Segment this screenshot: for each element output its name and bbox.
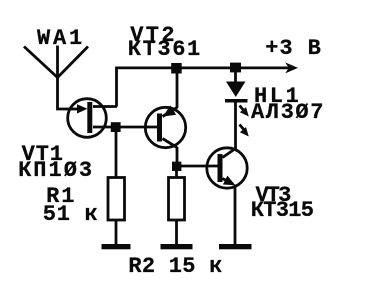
label KP103: [18, 160, 94, 182]
wire J3 to VT2 base: [116, 126, 158, 129]
node J2 (rail / LED): [230, 63, 241, 73]
label VT1: [22, 144, 64, 166]
antenna WA1: [24, 46, 88, 78]
label KT315: [251, 200, 314, 222]
wire J3 to R1: [115, 127, 118, 178]
label WA1: [37, 28, 85, 50]
ground under R2: [161, 244, 193, 249]
wire J4 to VT3 base: [177, 165, 218, 168]
label +3 V: [265, 38, 321, 60]
ground under R1: [102, 244, 131, 249]
label R1: [46, 186, 76, 208]
label VT3: [256, 185, 290, 207]
node J3 (VT1 drain / R1 / VT2 base): [111, 122, 121, 132]
resistor R1: [108, 178, 125, 221]
wire VT3 emitter to ground: [234, 185, 237, 246]
wire VT2 emitter to rail: [176, 68, 179, 108]
node J1 (rail / VT2 emitter): [171, 63, 182, 74]
label KT361: [128, 39, 202, 61]
ground under VT3: [219, 244, 252, 249]
wire VT1 source to +3V rail: [117, 68, 291, 107]
wire R2 to ground: [175, 220, 178, 245]
wire J4 to R2: [175, 166, 178, 178]
transistor VT1 (KP103 JFET): [68, 99, 117, 138]
wire VT2 collector to J4: [176, 147, 179, 166]
resistor R2: [169, 178, 185, 221]
label AL307: [251, 102, 325, 124]
label VT2: [130, 25, 177, 47]
wire antenna to VT1 gate: [58, 77, 81, 109]
label HL1: [254, 86, 301, 108]
label R2 15 k: [128, 256, 222, 278]
label 51 k: [43, 204, 99, 226]
+3V rail arrowhead: [285, 62, 298, 73]
wire R1 to ground: [115, 220, 118, 245]
wire LED to VT3 collector: [234, 102, 237, 149]
transistor VT3 (KT315 NPN): [207, 148, 247, 188]
transistor VT2 (KT361 PNP): [145, 105, 185, 147]
node J4 (VT2 collector / R2 / VT3 base): [172, 162, 181, 171]
LED HL1: [225, 68, 249, 137]
